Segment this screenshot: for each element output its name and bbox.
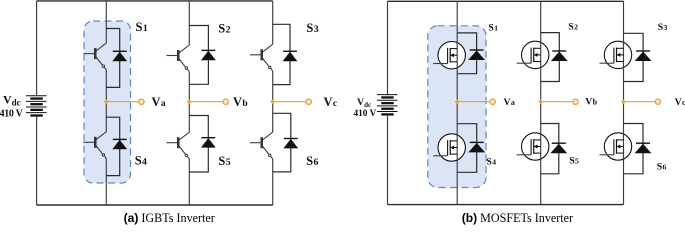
terminal: Vb output port (a) — [223, 99, 228, 104]
wire: leg 1 (b) — [456, 1, 458, 204]
wire: leg 1 lower segment (a) — [105, 159, 107, 206]
wire: top DC rail (a) — [37, 0, 273, 2]
junction: leg midpoint node (a) — [104, 99, 109, 104]
wire: top DC rail (b) — [388, 0, 624, 2]
diode D5 (anti-parallel with S5) — [201, 138, 216, 148]
svg-text:410 V: 410 V — [0, 108, 24, 119]
svg-text:Vdc: Vdc — [3, 93, 21, 108]
junction: leg midpoint node (b) — [621, 99, 626, 104]
wire: diode branch of S5 — [189, 116, 208, 173]
diode D3 (anti-parallel with S3) — [283, 51, 298, 61]
wire: leg 2 middle segment (a) — [188, 72, 190, 133]
svg-text:S3: S3 — [658, 22, 668, 33]
diode D6 (anti-parallel with S6) — [283, 139, 298, 149]
transistor S3 (MOSFET) — [600, 41, 632, 68]
svg-text:Va: Va — [504, 97, 515, 108]
transistor S1 (IGBT) — [84, 43, 107, 70]
svg-text:(a) IGBTs Inverter: (a) IGBTs Inverter — [124, 211, 215, 225]
svg-text:Vb: Vb — [585, 97, 597, 108]
terminal: Vb output port (b) — [573, 99, 578, 104]
transistor S4 (MOSFET) — [433, 134, 465, 161]
transistor S5 (MOSFET) — [517, 133, 549, 160]
diode D1 (anti-parallel with S1) — [468, 50, 485, 60]
svg-text:S1: S1 — [136, 20, 148, 34]
highlight box: phase leg A of IGBT inverter (S1/S4) — [84, 21, 131, 183]
transistor S2 (IGBT) — [167, 45, 190, 72]
diode D3 (anti-parallel with S3) — [635, 51, 652, 61]
junction: leg midpoint node (a) — [187, 99, 192, 104]
transistor S4 (IGBT) — [84, 132, 107, 159]
battery Vdc 410 V (a) — [26, 96, 47, 116]
wire: diode branch of S3 — [624, 33, 644, 81]
transistor S6 (IGBT) — [250, 132, 273, 159]
wire: diode branch of S4 — [457, 124, 477, 173]
wire: leg 3 (b) — [623, 1, 625, 204]
svg-text:S2: S2 — [218, 21, 230, 35]
wire: phase output Vb (a) — [189, 101, 223, 103]
wire: diode branch of S2 — [541, 33, 560, 82]
transistor S6 (MOSFET) — [600, 133, 632, 160]
wire: diode branch of S6 — [624, 124, 644, 174]
wire: battery leg upper (a) — [36, 1, 38, 96]
wire: leg 3 upper segment (a) — [272, 1, 274, 44]
battery Vdc 410 V (b) — [377, 95, 398, 115]
svg-text:S2: S2 — [568, 22, 578, 33]
junction: leg midpoint node (a) — [270, 99, 275, 104]
svg-text:Vb: Vb — [233, 95, 248, 109]
wire: leg 3 middle segment (a) — [272, 71, 274, 132]
wire: phase output Vc (a) — [273, 101, 306, 103]
wire: diode branch of S5 — [541, 124, 559, 174]
transistor S1 (MOSFET) — [433, 42, 465, 69]
wire: battery leg lower (b) — [387, 115, 389, 204]
wire: bottom DC rail (b) — [388, 204, 624, 206]
terminal: Vc output port (b) — [655, 99, 660, 104]
svg-text:S6: S6 — [306, 154, 318, 168]
terminal: Va output port (b) — [490, 99, 495, 104]
svg-text:Vc: Vc — [324, 95, 338, 109]
highlight box: phase leg A of MOSFET inverter (S1/S4) — [428, 26, 486, 188]
svg-text:Va: Va — [152, 95, 166, 109]
wire: bottom DC rail (a) — [37, 204, 273, 206]
terminal: Va output port (a) — [139, 99, 144, 104]
wire: phase output Vc (b) — [624, 101, 656, 103]
terminal: Vc output port (a) — [306, 99, 311, 104]
wire: leg 1 upper segment (a) — [105, 1, 107, 43]
junction: leg midpoint node (b) — [538, 99, 543, 104]
svg-text:S6: S6 — [657, 162, 667, 173]
wire: leg 3 lower segment (a) — [272, 159, 274, 205]
wire: phase output Va (b) — [457, 101, 490, 103]
wire: battery leg upper (b) — [387, 1, 389, 95]
wire: diode branch of S3 — [273, 24, 290, 84]
svg-text:(b) MOSFETs Inverter: (b) MOSFETs Inverter — [462, 211, 573, 225]
junction: leg midpoint node (b) — [455, 99, 460, 104]
diode D2 (anti-parallel with S2) — [551, 51, 568, 61]
wire: leg 1 middle segment (a) — [105, 70, 107, 132]
svg-text:S1: S1 — [488, 22, 498, 33]
svg-text:S4: S4 — [135, 153, 147, 167]
transistor S5 (IGBT) — [167, 132, 190, 159]
svg-text:S5: S5 — [218, 154, 230, 168]
diode D4 (anti-parallel with S4) — [468, 142, 485, 152]
transistor S3 (IGBT) — [250, 44, 273, 71]
svg-text:S5: S5 — [569, 156, 579, 167]
svg-text:Vdc: Vdc — [357, 97, 371, 109]
wire: diode branch of S1 — [106, 29, 119, 88]
wire: phase output Va (a) — [106, 101, 138, 103]
wire: leg 2 upper segment (a) — [188, 1, 190, 45]
svg-text:S4: S4 — [486, 157, 496, 168]
wire: leg 2 lower segment (a) — [188, 159, 190, 205]
transistor S2 (MOSFET) — [517, 41, 549, 68]
wire: phase output Vb (b) — [541, 101, 573, 103]
svg-text:S3: S3 — [306, 21, 318, 35]
wire: diode branch of S2 — [189, 26, 208, 85]
diode D6 (anti-parallel with S6) — [635, 143, 652, 153]
diode D5 (anti-parallel with S5) — [550, 143, 567, 153]
wire: diode branch of S6 — [273, 113, 291, 172]
svg-text:410 V: 410 V — [354, 109, 377, 119]
wire: diode branch of S4 — [106, 117, 119, 175]
diode D1 (anti-parallel with S1) — [112, 51, 127, 61]
diode D2 (anti-parallel with S2) — [201, 50, 216, 60]
svg-text:Vc: Vc — [675, 97, 685, 108]
wire: leg 2 (b) — [540, 1, 542, 204]
wire: battery leg lower (a) — [36, 116, 38, 205]
wire: diode branch of S1 — [457, 33, 476, 74]
diode D4 (anti-parallel with S4) — [112, 139, 127, 149]
